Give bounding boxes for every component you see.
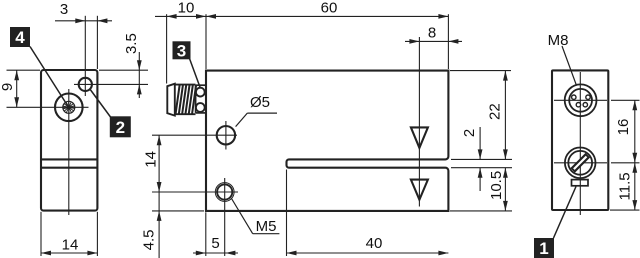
label 4 leader (30, 47, 68, 106)
dimension 10 top (155, 0, 206, 19)
left view body outline (41, 70, 97, 211)
screw clamp upper ball (196, 88, 205, 97)
right view body outline (552, 70, 608, 210)
left view small circle horizontal centerline (74, 83, 148, 85)
middle view body outline (206, 71, 448, 211)
svg-text:4: 4 (15, 28, 25, 47)
label 2 leader (90, 89, 111, 118)
extension line connector center (611, 99, 640, 101)
dimension 5 bottom (193, 235, 238, 255)
svg-text:2: 2 (461, 129, 478, 137)
label 3 box (173, 41, 191, 60)
dimension 3 top (55, 1, 112, 23)
M8 connector inner circle (569, 89, 592, 112)
left view vertical centerline (68, 89, 70, 215)
svg-text:8: 8 (428, 25, 436, 42)
svg-text:2: 2 (116, 118, 125, 137)
dimension 40 bottom (287, 235, 449, 255)
label 1 box (534, 238, 554, 258)
threaded hole M5 outer (215, 183, 234, 202)
dimension 14 bottom (41, 237, 97, 256)
extension line pot center (611, 162, 640, 164)
svg-text:11.5: 11.5 (616, 172, 633, 200)
svg-text:14: 14 (142, 151, 159, 168)
extension line body right top (96, 16, 98, 69)
M8 connector pins (572, 95, 591, 107)
left view knurled screw head (63, 101, 75, 113)
dimension 10.5 (488, 168, 508, 211)
label 2 box (110, 116, 131, 137)
svg-text:14: 14 (62, 237, 79, 254)
screw head (167, 84, 175, 116)
hole circle dia 5 (217, 126, 235, 144)
M8 connector outer circle (565, 84, 597, 116)
dimension 8 (405, 25, 462, 44)
svg-text:3: 3 (177, 41, 186, 60)
extension line M5 center bottom (224, 207, 226, 257)
extension line bottom right (96, 212, 98, 256)
left view small hole circle (79, 78, 92, 91)
extension line body bottom right (450, 210, 512, 212)
screw clamp box (196, 85, 206, 113)
potentiometer inner circle (568, 151, 592, 175)
svg-text:3: 3 (60, 1, 68, 18)
right view vertical centerline (579, 72, 581, 215)
leader dia5 (236, 94, 277, 127)
extension line 22 top (450, 70, 511, 72)
potentiometer tab (572, 180, 589, 186)
screw clamp lower ball (196, 103, 205, 112)
extension line top edge left (7, 69, 41, 71)
svg-text:1: 1 (539, 239, 548, 258)
extension line body bottom left (205, 212, 207, 256)
svg-text:Ø5: Ø5 (250, 94, 270, 111)
optical mark lower triangle (411, 180, 428, 200)
label 3 leader (190, 59, 201, 89)
dia5 hole vertical centerline (225, 121, 227, 150)
M5 hole horizontal centerline (152, 191, 238, 193)
left view small circle vertical centerline (84, 16, 86, 96)
extension line 4.5 bottom (152, 210, 204, 212)
dimension 14 middle (142, 135, 161, 192)
extension line top edge right (99, 69, 148, 71)
leader M5 (232, 199, 280, 236)
M8 label text (548, 32, 569, 49)
svg-text:9: 9 (0, 83, 16, 91)
svg-text:3.5: 3.5 (123, 33, 140, 54)
svg-text:16: 16 (615, 119, 632, 136)
left view slot lower line (42, 167, 97, 169)
optical mark upper triangle (411, 127, 428, 147)
left view horizontal centerline big circle (7, 106, 89, 108)
svg-text:4.5: 4.5 (140, 229, 157, 250)
dimension 9 (0, 70, 19, 107)
extension line slot bottom right (451, 167, 512, 169)
dimension 4.5 (140, 192, 161, 258)
extension line bottom left (40, 212, 42, 256)
svg-text:M5: M5 (256, 218, 277, 235)
threaded hole M5 inner (217, 184, 232, 199)
dia5 hole horizontal centerline (152, 134, 237, 136)
screw thread (176, 85, 197, 115)
svg-text:60: 60 (321, 0, 338, 17)
svg-text:10: 10 (178, 0, 195, 17)
label 1 leader (554, 187, 577, 239)
svg-text:M8: M8 (548, 32, 569, 49)
dimension 2 slot (461, 127, 483, 191)
M5 hole vertical centerline (224, 178, 226, 207)
extension line screw head (166, 14, 168, 83)
svg-text:5: 5 (211, 235, 219, 252)
optical axis centerline (418, 37, 420, 207)
extension line slot top right (451, 158, 512, 160)
svg-text:22: 22 (487, 103, 504, 120)
M8 leader (562, 46, 577, 86)
extension line 40 left (286, 170, 288, 257)
right view pot horizontal centerline (554, 162, 607, 164)
dimension 3.5 (123, 33, 142, 98)
svg-text:10.5: 10.5 (488, 171, 505, 200)
potentiometer outer circle (565, 148, 596, 179)
extension line body right top (447, 14, 449, 69)
svg-text:40: 40 (366, 235, 383, 252)
potentiometer slot (573, 155, 588, 170)
dimension 60 top (206, 0, 448, 19)
left view slot upper line (42, 158, 97, 160)
dimension 16 (615, 100, 637, 163)
right view connector horizontal centerline (554, 99, 607, 101)
dimension 11.5 (616, 163, 637, 210)
extension line body left top (205, 14, 207, 69)
left view big screw circle (55, 94, 83, 122)
label 4 box (10, 27, 30, 47)
extension line right bottom (610, 209, 640, 211)
dimension 22 (487, 71, 508, 160)
